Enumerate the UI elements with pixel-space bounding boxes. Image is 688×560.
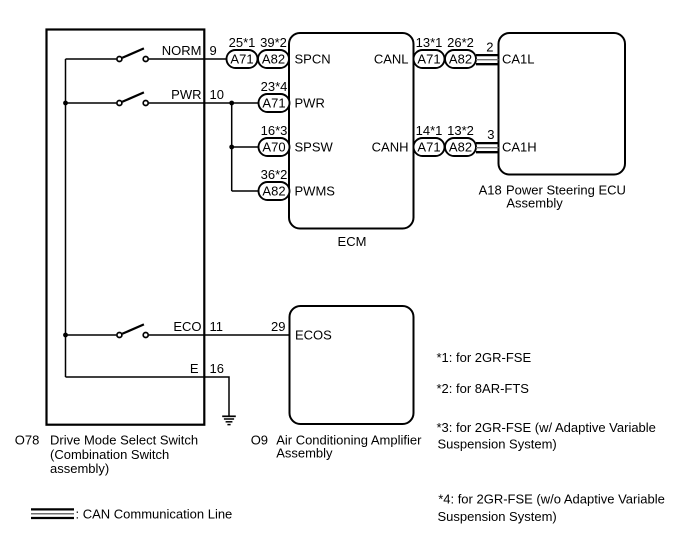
svg-text:PWR: PWR xyxy=(295,96,325,111)
block U1 ECM xyxy=(289,33,414,229)
connector A82 pin 26 (CANL) xyxy=(445,50,476,68)
switch NORM xyxy=(117,48,148,61)
svg-text:SPSW: SPSW xyxy=(295,140,334,155)
svg-text:A71: A71 xyxy=(230,52,253,67)
svg-text:A82: A82 xyxy=(449,52,472,67)
svg-text:29: 29 xyxy=(271,319,285,334)
block O9 Air Conditioning Amplifier xyxy=(290,306,414,424)
svg-text:NORM: NORM xyxy=(162,43,202,58)
wire PWR row xyxy=(66,102,259,104)
svg-text:CANL: CANL xyxy=(374,52,409,67)
label O78 Drive Mode Select Switch xyxy=(15,433,198,476)
svg-text:SPCN: SPCN xyxy=(295,52,331,67)
wire NORM row xyxy=(66,58,228,60)
legend CAN communication line symbol xyxy=(31,509,74,518)
svg-text:A82: A82 xyxy=(262,184,285,199)
svg-text:Suspension System): Suspension System) xyxy=(438,437,557,452)
svg-text:26*2: 26*2 xyxy=(447,35,474,50)
label O9 Air Conditioning Amplifier Assembly xyxy=(251,432,422,460)
connector A70 pin 16 (SPSW) xyxy=(259,138,290,156)
connector A71 pin 13 (CANL) xyxy=(414,50,445,68)
svg-text:O9: O9 xyxy=(251,432,268,447)
svg-text:CANH: CANH xyxy=(372,140,409,155)
ground xyxy=(222,416,236,424)
svg-text:(Combination Switch: (Combination Switch xyxy=(50,447,169,462)
svg-text:*4: for 2GR-FSE (w/o Adaptive: *4: for 2GR-FSE (w/o Adaptive Variable xyxy=(438,492,665,507)
wire PWMS stub xyxy=(232,190,259,192)
svg-text:13*1: 13*1 xyxy=(416,35,443,50)
svg-text:E: E xyxy=(190,361,199,376)
svg-text:CA1L: CA1L xyxy=(502,52,535,67)
svg-text:A82: A82 xyxy=(262,52,285,67)
connector A71 pin 25 (SPCN) xyxy=(227,50,258,68)
svg-text:A82: A82 xyxy=(449,140,472,155)
note *4 xyxy=(438,492,665,524)
connector A82 pin 13 (CANH) xyxy=(445,138,476,156)
svg-text:A71: A71 xyxy=(417,140,440,155)
svg-text:23*4: 23*4 xyxy=(261,79,288,94)
junction PWR branch xyxy=(229,101,234,106)
note *3 xyxy=(437,420,656,452)
connector A71 pin 23 (PWR) xyxy=(259,94,290,112)
CAN communication line CANL-CA1L xyxy=(476,55,499,64)
wire E row to ground xyxy=(66,377,230,416)
junction ECO bus xyxy=(63,333,68,338)
connector A71 pin 14 (CANH) xyxy=(414,138,445,156)
wire SPSW stub xyxy=(232,146,259,148)
svg-text:Assembly: Assembly xyxy=(276,446,333,461)
svg-text:11: 11 xyxy=(210,319,224,334)
svg-text:13*2: 13*2 xyxy=(447,123,474,138)
CAN communication line CANH-CA1H xyxy=(476,143,499,152)
svg-text:14*1: 14*1 xyxy=(416,123,443,138)
svg-text:3: 3 xyxy=(487,127,494,142)
wire ECO row xyxy=(66,334,290,336)
junction PWR bus xyxy=(63,101,68,106)
svg-text:39*2: 39*2 xyxy=(260,35,287,50)
svg-text:A18: A18 xyxy=(479,183,502,198)
svg-text:*3: for 2GR-FSE (w/ Adaptive V: *3: for 2GR-FSE (w/ Adaptive Variable xyxy=(437,420,656,435)
svg-text:Assembly: Assembly xyxy=(506,196,563,211)
svg-text:ECM: ECM xyxy=(338,234,367,249)
svg-text:ECO: ECO xyxy=(173,319,201,334)
connector A82 pin 36 (PWMS) xyxy=(259,182,290,200)
connector A82 pin 39 (SPCN) xyxy=(258,50,289,68)
svg-text:*1: for 2GR-FSE: *1: for 2GR-FSE xyxy=(437,350,532,365)
svg-text:A71: A71 xyxy=(417,52,440,67)
svg-text:PWMS: PWMS xyxy=(295,184,336,199)
svg-text:Drive Mode Select Switch: Drive Mode Select Switch xyxy=(50,433,198,448)
wire bus vertical xyxy=(65,59,67,377)
svg-text:CA1H: CA1H xyxy=(502,140,537,155)
svg-text:16: 16 xyxy=(210,361,224,376)
block O78 Drive Mode Select Switch xyxy=(47,30,205,425)
svg-text:O78: O78 xyxy=(15,433,40,448)
svg-text:36*2: 36*2 xyxy=(261,167,288,182)
svg-text:10: 10 xyxy=(210,87,224,102)
switch PWR xyxy=(117,92,148,105)
label A18 Power Steering ECU Assembly xyxy=(479,183,626,211)
svg-text:assembly): assembly) xyxy=(50,461,109,476)
switch ECO xyxy=(117,324,148,337)
svg-text:25*1: 25*1 xyxy=(229,35,256,50)
block A18 Power Steering ECU xyxy=(499,33,626,175)
svg-text:*2: for 8AR-FTS: *2: for 8AR-FTS xyxy=(437,381,530,396)
svg-text:Suspension System): Suspension System) xyxy=(438,509,557,524)
svg-text:: CAN Communication Line: : CAN Communication Line xyxy=(76,506,233,521)
svg-text:16*3: 16*3 xyxy=(261,123,288,138)
svg-text:9: 9 xyxy=(210,43,217,58)
svg-text:2: 2 xyxy=(486,40,493,55)
svg-text:A70: A70 xyxy=(262,140,285,155)
svg-text:PWR: PWR xyxy=(171,87,201,102)
svg-text:ECOS: ECOS xyxy=(295,327,332,342)
svg-text:A71: A71 xyxy=(262,96,285,111)
junction SPSW branch xyxy=(229,145,234,150)
wire PWR branch vertical xyxy=(231,103,233,191)
